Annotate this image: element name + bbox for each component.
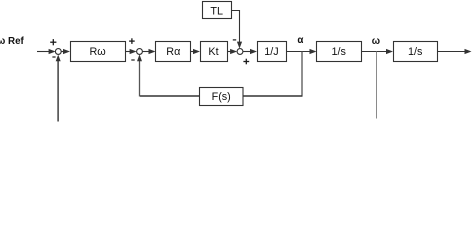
block Kt [201,42,228,62]
svg-text:1/J: 1/J [264,46,278,58]
svg-text:Rα: Rα [166,46,180,58]
svg-text:F(s): F(s) [212,91,231,103]
svg-text:Rω: Rω [89,46,105,58]
plus sign at S2 [129,38,135,44]
wire input arrow into summing junction S1 [37,49,56,54]
svg-text:ω: ω [372,36,380,47]
wire output arrow [438,49,472,54]
summing junction S1 [55,49,61,55]
block TL [203,2,232,19]
plus sign at S3 [243,59,249,65]
svg-text:ω Ref: ω Ref [0,36,25,47]
plus sign at S1 [50,39,56,45]
summing junction S3 [237,49,243,55]
minus sign at S3 [233,39,236,41]
wire Kt to S3 [227,49,237,54]
svg-text:1/s: 1/s [331,46,346,58]
minus sign at S1 [52,56,55,58]
wire F(s) output back up into S2 [140,95,200,97]
block F(s) [200,88,244,106]
wire S2 to Ra [142,49,155,54]
svg-text:α: α [297,35,303,46]
wire Rw to S2 [125,49,136,54]
wire S3 to 1/J [243,49,257,54]
svg-text:TL: TL [210,6,223,18]
svg-text:1/s: 1/s [408,46,423,58]
wire omega takeoff down [376,52,378,119]
wire 1/s to 1/s second [361,49,393,54]
wire TL down into S3 [232,11,243,49]
summing junction S2 [137,49,143,55]
block 1/J [258,42,287,62]
wire alpha takeoff down to F(s) loop [301,52,303,96]
wire Ra to Kt [191,49,200,54]
wire S1 to Rw [61,49,70,54]
wire 1/J to 1/s first [286,49,317,54]
block 1/s first [317,42,362,62]
block 1/s second [394,42,438,62]
minus sign at S2 [131,59,134,61]
block Rw [71,42,126,62]
block Ra [156,42,191,62]
svg-text:Kt: Kt [208,46,218,58]
wire S1 feedback from bottom [56,55,61,122]
